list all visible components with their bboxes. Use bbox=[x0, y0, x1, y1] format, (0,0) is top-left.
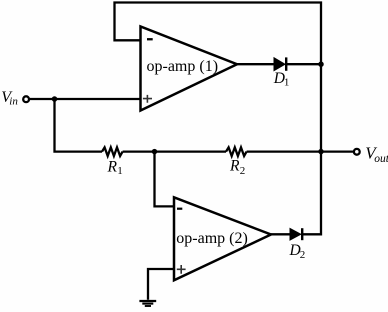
junction node Vout on right rail bbox=[318, 149, 324, 155]
ground bbox=[139, 301, 156, 306]
svg-text:in: in bbox=[9, 96, 18, 108]
resistor R1 bbox=[102, 147, 123, 156]
svg-text:op-amp (1): op-amp (1) bbox=[147, 58, 219, 75]
terminal Vout bbox=[354, 149, 360, 155]
wire op-amp U1 output to D1 bbox=[237, 63, 275, 65]
svg-text:1: 1 bbox=[117, 165, 123, 177]
wire R2 to Vout terminal bbox=[247, 150, 354, 152]
wire node A down to middle row bbox=[55, 99, 103, 152]
op-amp U1 minus input symbol bbox=[147, 38, 153, 40]
svg-text:1: 1 bbox=[284, 77, 290, 89]
junction node at Vin branch bbox=[52, 96, 58, 102]
op-amp U2 minus input symbol bbox=[177, 208, 182, 210]
svg-text:2: 2 bbox=[300, 249, 306, 261]
op-amp U2 triangle bbox=[174, 197, 271, 280]
wire D1 cathode to right rail bbox=[286, 63, 322, 65]
diode D2 bbox=[290, 228, 302, 240]
svg-text:out: out bbox=[374, 153, 388, 165]
wire Vin to op-amp U1 + input bbox=[29, 98, 140, 100]
wire op-amp U2 + input to ground bbox=[148, 269, 174, 300]
op-amp U2 plus input symbol bbox=[177, 265, 186, 274]
resistor R2 bbox=[226, 147, 247, 156]
diode D1 bbox=[274, 57, 286, 70]
wire op-amp U2 output to D2 bbox=[271, 233, 291, 235]
op-amp U1 triangle bbox=[141, 27, 238, 111]
svg-text:R: R bbox=[107, 159, 118, 176]
svg-text:R: R bbox=[229, 157, 240, 174]
svg-text:op-amp (2): op-amp (2) bbox=[176, 230, 248, 247]
wire R1 to R2 bbox=[123, 150, 226, 152]
op-amp U1 plus input symbol bbox=[143, 95, 152, 103]
wire feedback loop op-amp U1 top and right vertical rail bbox=[115, 3, 322, 235]
svg-text:2: 2 bbox=[240, 165, 246, 177]
junction node between R1 and R2 bbox=[152, 149, 158, 155]
wire node B down to op-amp U2 - input bbox=[155, 152, 175, 207]
terminal Vin bbox=[23, 96, 29, 102]
junction node D1 on right rail bbox=[318, 61, 324, 67]
